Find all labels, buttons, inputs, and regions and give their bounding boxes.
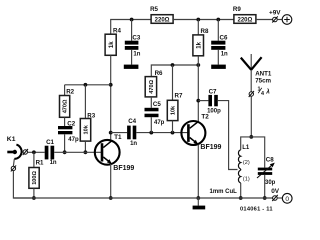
node junction R1 / ground rail — [32, 196, 36, 200]
node junction T1 emitter / ground rail — [109, 196, 113, 200]
resistor R5 — [150, 6, 173, 24]
svg-text:47p: 47p — [154, 120, 165, 126]
svg-text:1n: 1n — [50, 160, 57, 166]
svg-text:R3: R3 — [87, 112, 95, 119]
node junction T2 emitter / ground rail — [196, 196, 200, 200]
antenna terminal circle quarter-wave — [249, 87, 271, 98]
svg-text:220Ω: 220Ω — [237, 18, 252, 24]
svg-text:C7: C7 — [209, 88, 217, 95]
wire y85 base-bias rail (R2 top, R3 top, collector) — [65, 84, 111, 86]
svg-text:470Ω: 470Ω — [149, 79, 155, 93]
node junction C3 top on rail — [130, 18, 134, 22]
wire R7 bottom to base wire — [172, 121, 174, 133]
wire T2 collector with C7 tap — [197, 65, 199, 122]
node junction R8 top on rail — [196, 18, 200, 22]
svg-text:C4: C4 — [128, 118, 136, 125]
svg-text:1mm CuL: 1mm CuL — [210, 189, 238, 195]
svg-text:R8: R8 — [201, 28, 209, 35]
svg-text:(2): (2) — [243, 160, 250, 166]
capacitor C7 — [207, 88, 221, 114]
wire R3 bottom to base wire — [84, 141, 86, 152]
svg-text:R6: R6 — [155, 70, 163, 77]
wire C5 bottom to base wire — [150, 117, 152, 132]
connector K1 audio jack — [7, 136, 22, 166]
svg-text:0: 0 — [285, 196, 289, 203]
svg-text:(1): (1) — [243, 176, 250, 182]
wire collector node to C4 — [111, 132, 127, 134]
antenna ANT1 — [241, 54, 272, 92]
transistor T2 BF199 — [181, 114, 221, 151]
node junction tank / antenna — [249, 135, 253, 139]
node junction C2 / base wire — [63, 150, 67, 154]
svg-text:K1: K1 — [7, 136, 16, 143]
resistor R6 — [145, 70, 163, 97]
svg-text:1k: 1k — [109, 41, 115, 48]
svg-text:R5: R5 — [150, 6, 158, 13]
transistor T1 BF199 — [95, 134, 135, 172]
svg-text:R7: R7 — [175, 93, 183, 100]
wire rail between R5 and R9 — [173, 19, 234, 21]
svg-text:1n: 1n — [221, 51, 228, 57]
svg-text:R4: R4 — [113, 28, 121, 35]
wire R1 top lead — [33, 152, 35, 167]
wire R8 bottom to y65 rail — [197, 56, 199, 65]
svg-text:R1: R1 — [36, 159, 44, 166]
wire top rail left segment from R4 top to R5 — [111, 20, 151, 35]
svg-text:C1: C1 — [46, 139, 54, 146]
K1 tip terminal circle — [23, 149, 28, 155]
wire down to R2 — [64, 85, 66, 96]
wire to C7 — [198, 100, 208, 102]
svg-text:30p: 30p — [265, 180, 276, 186]
wire C7 to L1 tap — [218, 101, 238, 170]
inductor L1 — [238, 145, 249, 183]
wire R2 bottom to C2 — [64, 117, 66, 126]
svg-text:C6: C6 — [220, 34, 228, 41]
svg-text:λ: λ — [265, 88, 270, 96]
wire K1 sleeve down to ground rail — [13, 171, 34, 198]
wire antenna down to tank junction — [250, 96, 252, 137]
wire R4 bottom to T1 collector — [110, 55, 112, 140]
resistor R1 — [29, 159, 44, 188]
0V supply terminal — [271, 188, 292, 203]
svg-text:4: 4 — [261, 91, 264, 97]
resistor R9 — [233, 6, 256, 24]
capacitor C1 — [45, 139, 57, 166]
node junction R8 bottom / collector — [196, 63, 200, 67]
capacitor C2 — [58, 120, 79, 143]
svg-text:0V: 0V — [271, 188, 280, 195]
svg-text:470Ω: 470Ω — [63, 99, 69, 113]
wire L1 top lead — [241, 137, 252, 150]
svg-text:1k: 1k — [196, 41, 202, 48]
resistor R8 — [193, 28, 209, 56]
svg-text:100p: 100p — [207, 108, 221, 114]
wire C1 to T1 base — [54, 151, 101, 153]
resistor R4 — [105, 28, 121, 56]
svg-text:47p: 47p — [68, 137, 79, 143]
capacitor C5 — [145, 101, 165, 126]
svg-text:C3: C3 — [132, 34, 140, 41]
capacitor C4 — [127, 118, 137, 147]
wire y65 T2 collector feedback rail — [151, 65, 198, 77]
wire K1 tip to C1 — [28, 151, 45, 153]
svg-text:220Ω: 220Ω — [155, 18, 170, 24]
svg-text:C8: C8 — [266, 156, 274, 163]
ground bar under C6 — [211, 65, 226, 69]
node junction R7 bottom / base wire — [171, 131, 175, 135]
node junction collector / C4 wire — [109, 131, 113, 135]
wire R6 bottom to C5 — [150, 97, 152, 108]
wire R8 top lead — [197, 20, 199, 35]
svg-text:L1: L1 — [242, 145, 250, 151]
svg-text:R2: R2 — [66, 89, 74, 96]
node junction C5 bottom / base wire — [149, 131, 153, 135]
svg-text:T2: T2 — [201, 114, 209, 121]
trimmer capacitor C8 — [257, 156, 276, 186]
svg-text:C5: C5 — [153, 101, 161, 108]
node junction R7 top — [171, 63, 175, 67]
wire C2 bottom to base wire — [64, 134, 66, 152]
svg-text:10k: 10k — [84, 124, 90, 134]
node junction C7 / collector — [196, 99, 200, 103]
svg-text:C2: C2 — [67, 120, 75, 127]
node junction L1 / ground rail — [239, 196, 243, 200]
wire R7 top lead — [172, 65, 174, 100]
svg-text:75cm: 75cm — [255, 77, 271, 84]
svg-text:R9: R9 — [233, 6, 241, 13]
node junction R1 top — [32, 150, 36, 154]
svg-text:1n: 1n — [133, 51, 140, 57]
wire ground rail — [13, 197, 272, 199]
wire rail from R9 to +9V terminal — [256, 19, 273, 21]
ground bar below rail at T2 — [197, 198, 199, 206]
capacitor C3 — [125, 20, 141, 65]
node junction R3 top — [84, 83, 88, 87]
node junction C8 / ground rail — [263, 196, 267, 200]
node junction collector wire / base network — [109, 83, 113, 87]
node junction C6 top on rail — [216, 18, 220, 22]
svg-text:BF199: BF199 — [200, 144, 221, 151]
+9V supply terminal — [269, 9, 292, 24]
wire C4 to T2 base — [136, 132, 187, 134]
K1 sleeve terminal circle — [11, 165, 16, 171]
wire tank junction to C8 — [251, 137, 264, 168]
ground bar under C3 — [124, 65, 139, 69]
wire T1 emitter to ground rail — [110, 164, 112, 198]
svg-text:1n: 1n — [130, 141, 137, 147]
node junction R3 / base wire — [84, 150, 88, 154]
svg-text:10k: 10k — [171, 105, 177, 115]
wire R1 bottom to ground rail — [33, 188, 35, 198]
svg-text:BF199: BF199 — [113, 165, 134, 172]
svg-text:T1: T1 — [114, 134, 122, 141]
wire C8 bottom to ground rail — [264, 175, 266, 198]
resistor R7 — [167, 93, 183, 121]
wire T2 emitter to ground rail — [197, 145, 199, 198]
svg-text:100Ω: 100Ω — [32, 170, 38, 184]
wire L1 bottom to ground rail — [240, 183, 242, 198]
svg-text:+9V: +9V — [269, 9, 281, 16]
wire R3 top lead — [84, 85, 86, 119]
resistor R3 — [80, 112, 95, 141]
svg-text:014061 - 11: 014061 - 11 — [240, 206, 273, 212]
capacitor C6 — [211, 20, 228, 65]
resistor R2 — [60, 89, 75, 118]
